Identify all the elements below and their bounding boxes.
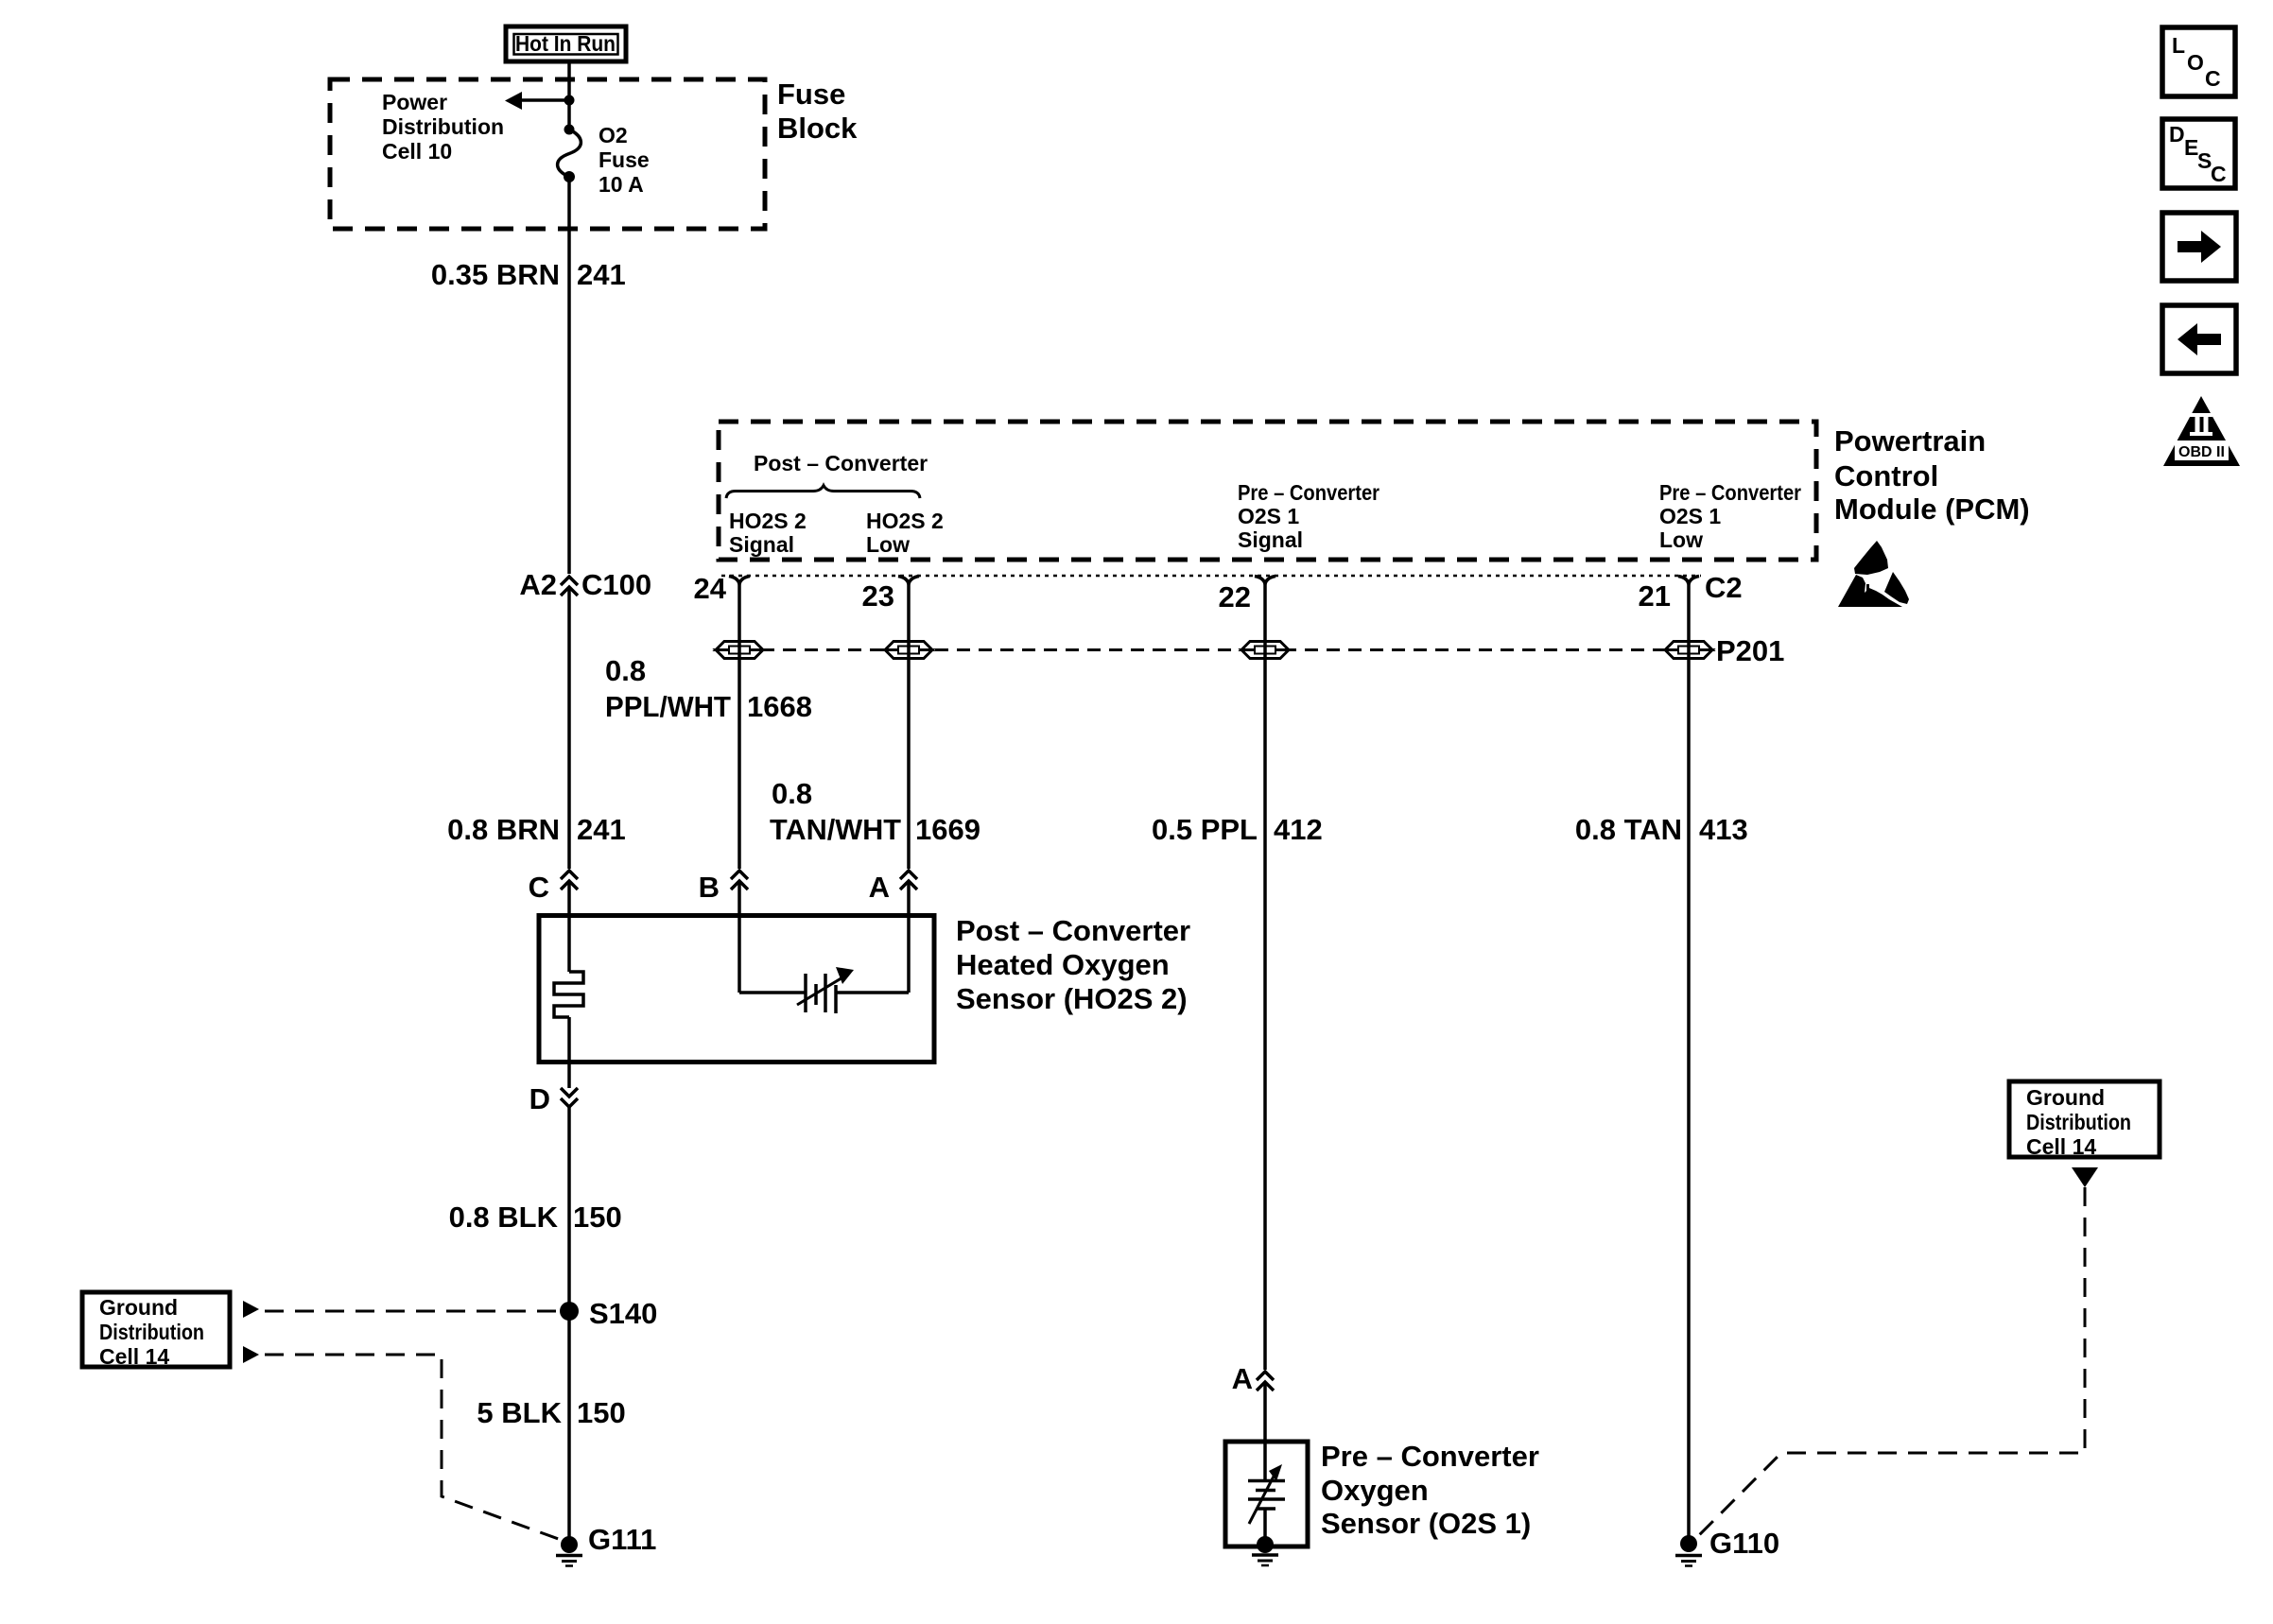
svg-text:24: 24 xyxy=(694,572,727,605)
wire pin22 0.5 PPL 412 xyxy=(1263,584,1267,1370)
svg-text:A2: A2 xyxy=(519,568,557,601)
wire B into HO2S2 box xyxy=(737,881,741,993)
svg-text:0.8 TAN: 0.8 TAN xyxy=(1575,813,1682,846)
svg-text:Sensor (O2S 1): Sensor (O2S 1) xyxy=(1321,1507,1531,1540)
svg-text:Fuse: Fuse xyxy=(777,78,845,111)
pin 22 Y connector xyxy=(1219,577,1275,614)
svg-text:C: C xyxy=(2211,162,2227,186)
svg-text:10 A: 10 A xyxy=(599,172,644,197)
pin A chevron (O2S 1) xyxy=(1232,1362,1274,1395)
svg-text:A: A xyxy=(869,871,890,904)
svg-text:S140: S140 xyxy=(589,1297,657,1330)
wire pin24 0.8 PPL/WHT 1668 xyxy=(737,583,741,869)
svg-text:241: 241 xyxy=(577,813,626,846)
svg-text:0.8: 0.8 xyxy=(772,777,812,810)
svg-text:0.35 BRN: 0.35 BRN xyxy=(431,258,560,291)
svg-text:O2S 1: O2S 1 xyxy=(1659,504,1721,528)
wire pin21 0.8 TAN 413 xyxy=(1687,583,1691,1544)
svg-text:Module (PCM): Module (PCM) xyxy=(1834,492,2030,526)
svg-text:Heated Oxygen: Heated Oxygen xyxy=(956,948,1170,981)
svg-text:150: 150 xyxy=(577,1396,626,1429)
label Power Distribution Cell 10 xyxy=(382,90,504,164)
icon ESD warning (PCM) xyxy=(1838,541,1909,607)
pin C chevron xyxy=(529,871,578,904)
svg-text:Fuse: Fuse xyxy=(599,147,650,172)
svg-text:C: C xyxy=(529,871,549,904)
icon LOC xyxy=(2162,27,2235,96)
svg-text:Power: Power xyxy=(382,90,447,114)
wire A into HO2S2 box xyxy=(907,881,911,993)
svg-text:21: 21 xyxy=(1639,579,1671,613)
label 0.8 BLK 150 xyxy=(449,1201,622,1234)
svg-text:Pre – Converter: Pre – Converter xyxy=(1321,1440,1539,1473)
O2S 1 sensor box xyxy=(1225,1442,1308,1546)
pin 21 Y connector xyxy=(1639,571,1743,613)
svg-text:C: C xyxy=(2205,66,2221,91)
svg-text:0.8 BRN: 0.8 BRN xyxy=(447,813,560,846)
pin A chevron xyxy=(869,871,917,904)
icon back arrow xyxy=(2162,305,2236,373)
svg-text:Sensor (HO2S 2): Sensor (HO2S 2) xyxy=(956,982,1188,1015)
node Ground Distribution Cell 14 (left) xyxy=(82,1292,230,1369)
label Pre - Converter Oxygen Sensor (O2S 1) xyxy=(1321,1440,1539,1540)
fuse O2 Fuse 10A xyxy=(558,125,581,183)
fuse block dashed box xyxy=(330,79,765,229)
svg-text:Pre – Converter: Pre – Converter xyxy=(1659,480,1801,505)
svg-text:5 BLK: 5 BLK xyxy=(477,1396,562,1429)
label 5 BLK 150 xyxy=(477,1396,625,1429)
wire 0.35 BRN 241 xyxy=(567,177,571,574)
svg-text:Ground: Ground xyxy=(2026,1085,2105,1110)
wire 0.8 BLK 150 xyxy=(567,1107,571,1311)
arrow to S140 xyxy=(243,1301,259,1318)
label 0.8 BRN 241 xyxy=(447,813,626,846)
svg-text:150: 150 xyxy=(573,1201,622,1234)
svg-text:0.5 PPL: 0.5 PPL xyxy=(1152,813,1258,846)
svg-text:412: 412 xyxy=(1274,813,1323,846)
wire 0.8 BRN 241 xyxy=(567,587,571,869)
pin B chevron xyxy=(699,871,748,904)
svg-text:Cell 14: Cell 14 xyxy=(99,1344,169,1369)
node Ground Distribution Cell 14 (right) xyxy=(2009,1081,2160,1159)
svg-text:413: 413 xyxy=(1699,813,1748,846)
svg-text:241: 241 xyxy=(577,258,626,291)
ground G111 xyxy=(556,1523,656,1566)
splice S140 xyxy=(560,1297,657,1330)
label 0.8 TAN 413 xyxy=(1575,813,1748,846)
svg-text:1669: 1669 xyxy=(915,813,980,846)
svg-text:Signal: Signal xyxy=(729,532,794,557)
label Powertrain Control Module (PCM) xyxy=(1834,424,2030,526)
in-line connector on pin 24 wire xyxy=(716,642,763,659)
svg-text:Powertrain: Powertrain xyxy=(1834,424,1986,458)
in-line connector dashed link line xyxy=(739,648,1689,651)
ground G110 xyxy=(1675,1527,1779,1566)
svg-text:Post – Converter: Post – Converter xyxy=(754,451,928,475)
wire branch to Power Distribution arrow xyxy=(521,98,569,102)
label Pre - Converter O2S 1 Low xyxy=(1659,480,1801,552)
svg-text:D: D xyxy=(2169,122,2185,147)
wire A into O2S1 box xyxy=(1263,1382,1267,1442)
svg-text:C2: C2 xyxy=(1705,571,1743,604)
pin 23 Y connector xyxy=(862,577,919,613)
PCM connector face dotted line xyxy=(721,575,1701,578)
heater element xyxy=(554,915,583,1088)
label 0.35 BRN 241 xyxy=(431,258,626,291)
in-line connector P201 on pin 21 wire xyxy=(1665,634,1784,667)
svg-text:0.8 BLK: 0.8 BLK xyxy=(449,1201,559,1234)
variable sense element (HO2S 2) xyxy=(739,967,909,1013)
dashed wire to G111 xyxy=(265,1355,564,1541)
wire from Hot In Run into fuse block xyxy=(567,61,571,127)
svg-text:Distribution: Distribution xyxy=(2026,1110,2131,1134)
dashed wire to S140 xyxy=(265,1310,559,1313)
node Hot In Run xyxy=(506,26,626,61)
svg-text:TAN/WHT: TAN/WHT xyxy=(770,813,901,846)
svg-text:Low: Low xyxy=(866,532,910,557)
svg-text:22: 22 xyxy=(1219,580,1251,613)
svg-text:Post – Converter: Post – Converter xyxy=(956,914,1190,947)
PCM dashed box xyxy=(719,422,1816,560)
svg-text:C100: C100 xyxy=(581,568,651,601)
wire pin23 0.8 TAN/WHT 1669 xyxy=(907,583,911,869)
svg-text:O: O xyxy=(2187,50,2204,75)
label Fuse Block xyxy=(777,78,858,145)
label O2 Fuse 10 A xyxy=(599,123,650,197)
svg-text:Hot In Run: Hot In Run xyxy=(515,31,616,56)
pin 24 Y connector xyxy=(694,572,750,605)
svg-text:O2: O2 xyxy=(599,123,628,147)
dashed wire to G110 xyxy=(1694,1187,2085,1540)
svg-text:Cell 14: Cell 14 xyxy=(2026,1134,2096,1159)
label 0.5 PPL 412 xyxy=(1152,813,1323,846)
svg-text:Distribution: Distribution xyxy=(382,114,504,139)
svg-text:G110: G110 xyxy=(1709,1527,1779,1560)
variable sense element (O2S 1) xyxy=(1248,1442,1285,1545)
svg-text:A: A xyxy=(1232,1362,1253,1395)
in-line connector on pin 23 wire xyxy=(885,642,932,659)
connector A2 C100 xyxy=(519,568,651,601)
icon forward arrow xyxy=(2162,213,2236,281)
brace over HO2S 2 pins xyxy=(726,486,920,499)
label HO2S 2 Signal xyxy=(729,509,807,557)
arrow from right ground distribution xyxy=(2072,1167,2098,1187)
svg-text:PPL/WHT: PPL/WHT xyxy=(605,690,731,723)
svg-text:23: 23 xyxy=(862,579,894,613)
svg-text:D: D xyxy=(529,1082,550,1115)
svg-text:Oxygen: Oxygen xyxy=(1321,1474,1429,1507)
arrow to G111 xyxy=(243,1346,259,1363)
node junction to Power Distribution xyxy=(564,95,575,106)
svg-text:Block: Block xyxy=(777,112,858,145)
HO2S 2 sensor box xyxy=(539,916,934,1063)
svg-text:Cell 10: Cell 10 xyxy=(382,139,452,164)
label HO2S 2 Low xyxy=(866,509,944,557)
pin D chevron xyxy=(529,1082,578,1115)
svg-text:Ground: Ground xyxy=(99,1295,178,1320)
icon OBD II triangle xyxy=(2163,396,2240,466)
svg-text:P201: P201 xyxy=(1716,634,1784,667)
icon DESC xyxy=(2162,119,2235,188)
in-line connector on pin 22 wire xyxy=(1241,642,1289,659)
svg-text:G111: G111 xyxy=(588,1523,656,1556)
svg-text:HO2S 2: HO2S 2 xyxy=(729,509,807,533)
svg-text:HO2S 2: HO2S 2 xyxy=(866,509,944,533)
svg-text:Control: Control xyxy=(1834,459,1938,492)
svg-text:L: L xyxy=(2172,33,2185,58)
svg-text:OBD II: OBD II xyxy=(2178,444,2225,460)
label Post - Converter Heated Oxygen Sensor (HO2S 2) xyxy=(956,914,1190,1015)
svg-text:1668: 1668 xyxy=(747,690,812,723)
svg-text:Pre – Converter: Pre – Converter xyxy=(1238,480,1379,505)
svg-text:Signal: Signal xyxy=(1238,527,1303,552)
wire C into HO2S2 box xyxy=(567,881,571,915)
svg-text:0.8: 0.8 xyxy=(605,654,646,687)
label Pre - Converter O2S 1 Signal xyxy=(1238,480,1379,552)
label 0.8 PPL/WHT 1668 xyxy=(605,654,812,723)
label 0.8 TAN/WHT 1669 xyxy=(770,777,980,846)
svg-text:B: B xyxy=(699,871,720,904)
ground under O2S 1 xyxy=(1252,1536,1278,1565)
svg-text:Low: Low xyxy=(1659,527,1703,552)
svg-text:O2S 1: O2S 1 xyxy=(1238,504,1299,528)
svg-text:Distribution: Distribution xyxy=(99,1320,204,1344)
wire 5 BLK 150 xyxy=(567,1311,571,1543)
